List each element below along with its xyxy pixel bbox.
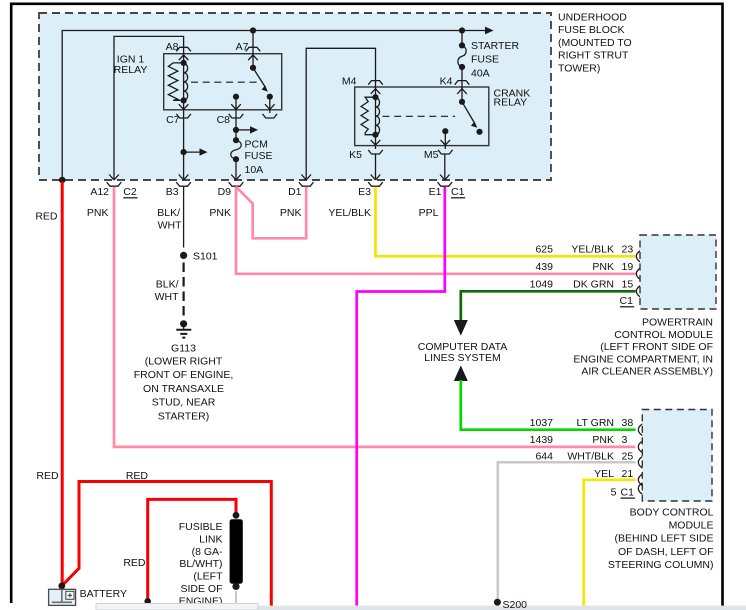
svg-text:WHT: WHT	[155, 291, 179, 303]
arrow up (lt grn)	[454, 365, 468, 381]
svg-text:RED: RED	[36, 470, 59, 482]
svg-text:RIGHT STRUT: RIGHT STRUT	[558, 50, 629, 62]
pin B3 exit arrow	[179, 175, 189, 180]
svg-text:OF DASH, LEFT OF: OF DASH, LEFT OF	[618, 546, 713, 558]
node: junction at bottom	[144, 598, 151, 605]
contact to M5	[442, 128, 448, 134]
svg-text:K4: K4	[440, 75, 453, 87]
svg-text:40A: 40A	[471, 67, 490, 79]
svg-text:YEL/BLK: YEL/BLK	[328, 207, 371, 219]
arrow (feed continues right)	[485, 27, 494, 35]
wire: M4 pin into relay coil	[375, 81, 377, 98]
svg-text:BL/WHT): BL/WHT)	[179, 558, 222, 570]
arrow down (dk grn)	[454, 320, 468, 336]
underhood fuse block (dashed box, blue fill)	[39, 13, 551, 180]
svg-text:25: 25	[622, 451, 634, 463]
svg-text:ON TRANSAXLE: ON TRANSAXLE	[143, 383, 224, 395]
relay coil (IGN 1): resistor zigzag	[168, 63, 183, 101]
wire: K4 pin into switch	[461, 81, 463, 102]
svg-text:3: 3	[622, 434, 628, 446]
svg-text:RELAY: RELAY	[114, 64, 148, 76]
ground G113	[180, 320, 187, 327]
contact (open end)	[476, 129, 482, 135]
PCM pin brackets	[636, 250, 642, 263]
svg-text:PNK: PNK	[209, 207, 231, 219]
svg-text:10A: 10A	[245, 164, 264, 176]
svg-text:POWERTRAIN: POWERTRAIN	[642, 317, 713, 329]
svg-text:AIR CLEANER ASSEMBLY): AIR CLEANER ASSEMBLY)	[581, 366, 713, 378]
node: coil top	[372, 94, 378, 100]
PCM wire row labels	[530, 244, 635, 307]
wire: coil bottom to K5	[375, 135, 377, 149]
svg-text:LT GRN: LT GRN	[576, 417, 614, 429]
svg-text:C2: C2	[123, 186, 137, 198]
svg-text:C1: C1	[620, 295, 634, 307]
svg-text:WHT/BLK: WHT/BLK	[567, 451, 614, 463]
bottom scrollbar strip	[104, 606, 746, 610]
svg-text:C1: C1	[621, 486, 635, 498]
fusible link (8 GA BL/WHT)	[233, 512, 240, 519]
switch blade (diagonal)	[253, 68, 266, 88]
wire: K5 to E3 exit	[375, 154, 377, 179]
label: COMPUTER DATA LINES SYSTEM	[418, 341, 507, 364]
arrow into box at M4	[371, 89, 381, 94]
node: C8 branch junction	[233, 127, 239, 133]
wire: RED fusible link feed	[148, 499, 236, 601]
switch blade (diagonal)	[462, 102, 475, 124]
node: C7 branch junction	[181, 149, 187, 155]
svg-text:LINES SYSTEM: LINES SYSTEM	[424, 352, 500, 364]
svg-text:PNK: PNK	[592, 261, 614, 273]
wire color labels	[35, 207, 438, 232]
svg-text:FRONT OF ENGINE,: FRONT OF ENGINE,	[134, 369, 234, 381]
wire: YEL/BLK E3 to PCM pin 23 (625)	[376, 187, 636, 256]
svg-text:FUSE BLOCK: FUSE BLOCK	[558, 24, 625, 36]
wire: PNK link D9 to D1	[236, 187, 306, 239]
svg-text:15: 15	[622, 279, 634, 291]
svg-text:RED: RED	[35, 211, 58, 223]
pin E3 exit arrow	[371, 175, 381, 180]
svg-text:STUD, NEAR: STUD, NEAR	[152, 397, 216, 409]
svg-text:(LEFT FRONT SIDE OF: (LEFT FRONT SIDE OF	[600, 341, 713, 353]
svg-text:S101: S101	[193, 251, 218, 263]
svg-text:PCM: PCM	[245, 138, 268, 150]
svg-text:BODY CONTROL: BODY CONTROL	[630, 507, 714, 519]
svg-text:UNDERHOOD: UNDERHOOD	[558, 12, 627, 24]
pin A12 exit arrow	[109, 175, 119, 180]
arrow out of box at C7	[179, 104, 189, 109]
pin D1 exit arrow	[301, 175, 311, 180]
node: switch pivot	[459, 99, 465, 105]
node: battery junction	[58, 583, 65, 590]
svg-text:M4: M4	[342, 75, 357, 87]
label: FUSIBLE LINK	[179, 521, 223, 607]
crank relay box	[355, 87, 489, 146]
svg-text:38: 38	[622, 417, 634, 429]
svg-text:TOWER): TOWER)	[558, 62, 600, 74]
pin E1 bracket	[438, 182, 453, 186]
svg-text:PNK: PNK	[87, 207, 109, 219]
svg-text:644: 644	[535, 451, 553, 463]
svg-text:625: 625	[535, 244, 553, 256]
svg-text:C8: C8	[217, 114, 231, 126]
mechanical link (dashed)	[383, 115, 456, 117]
svg-text:RED: RED	[123, 557, 146, 569]
splice S101	[180, 252, 187, 259]
svg-text:YEL/BLK: YEL/BLK	[571, 244, 614, 256]
svg-text:1439: 1439	[530, 434, 554, 446]
wire: A8 pin into relay coil	[183, 47, 185, 63]
svg-text:BLK/: BLK/	[157, 207, 180, 219]
pin B3 bracket	[176, 182, 191, 186]
pin D9 bracket	[229, 182, 244, 186]
svg-text:RED: RED	[126, 470, 149, 482]
pin (unlabeled)	[263, 114, 278, 118]
svg-text:(BEHIND LEFT SIDE: (BEHIND LEFT SIDE	[615, 533, 714, 545]
svg-text:23: 23	[622, 244, 634, 256]
node: coil bottom	[181, 97, 187, 103]
label: POWERTRAIN CONTROL MODULE	[573, 317, 713, 378]
mechanical link (dashed)	[191, 81, 260, 83]
node: switch pivot	[250, 65, 256, 71]
arrow into box at K4	[457, 89, 467, 94]
arrow into box at A8	[179, 55, 189, 60]
svg-text:21: 21	[622, 468, 634, 480]
svg-text:439: 439	[535, 261, 553, 273]
wire: A8 to A12 exit	[114, 36, 184, 178]
svg-text:FUSE: FUSE	[245, 150, 273, 162]
svg-text:M5: M5	[424, 149, 439, 161]
node: coil bottom	[372, 132, 378, 138]
label: STARTER FUSE 40A	[471, 40, 519, 79]
wire: BLK/WHT B3 to S101	[183, 187, 185, 248]
svg-text:K5: K5	[349, 149, 362, 161]
pin E3 bracket	[368, 182, 383, 186]
wire: RED battery feed (left)	[61, 182, 64, 586]
wire: PPL E1 down and across	[357, 187, 445, 606]
svg-text:SIDE OF: SIDE OF	[180, 583, 222, 595]
contact (unused throw)	[267, 94, 273, 100]
svg-text:E3: E3	[358, 186, 371, 198]
relay coil (IGN 1): arcs	[184, 63, 188, 101]
wire: M5 to E1 exit	[444, 154, 446, 179]
svg-text:E1: E1	[429, 186, 442, 198]
arrow out of box at K5	[371, 140, 381, 145]
svg-text:STEERING COLUMN): STEERING COLUMN)	[608, 559, 714, 571]
wire: PNK A12 to BCM pin 3 (1439)	[114, 187, 636, 447]
svg-text:FUSIBLE: FUSIBLE	[179, 521, 223, 533]
svg-text:ENGINE COMPARTMENT, IN: ENGINE COMPARTMENT, IN	[573, 353, 713, 365]
svg-text:(8 GA-: (8 GA-	[192, 546, 223, 558]
pcm fuse 10A	[233, 137, 239, 143]
svg-text:S200: S200	[503, 599, 528, 610]
wire: WHT/BLK BCM pin 25 (644) to S200	[498, 462, 636, 601]
svg-text:(LEFT: (LEFT	[193, 571, 223, 583]
svg-text:FUSE: FUSE	[471, 54, 499, 66]
wire: fuse to D9 exit	[235, 159, 237, 178]
svg-text:STARTER: STARTER	[471, 40, 519, 52]
body control module (dashed box)	[642, 410, 712, 502]
svg-text:C1: C1	[451, 186, 465, 198]
svg-text:A12: A12	[90, 186, 109, 198]
svg-text:LINK: LINK	[199, 533, 222, 545]
wire: PNK D9 to PCM pin 19 (439)	[236, 187, 636, 274]
wire: A7 pin into switch	[252, 31, 254, 68]
splice S200	[494, 599, 501, 606]
svg-text:WHT: WHT	[158, 220, 182, 232]
node: junction above A7	[250, 27, 256, 33]
wire: main battery feed bus across fuse block top	[62, 31, 486, 181]
wire: branch to other circuits	[184, 151, 200, 153]
wire: M4 to D1 exit	[306, 48, 375, 178]
wire: DK GRN PCM pin 15 (1049) to data lines	[461, 291, 636, 320]
svg-text:(MOUNTED TO: (MOUNTED TO	[558, 37, 632, 49]
node: coil top	[181, 60, 187, 66]
node: red feed exit at fuse block bottom	[59, 177, 66, 184]
svg-text:(LOWER RIGHT: (LOWER RIGHT	[145, 356, 223, 368]
svg-text:G113: G113	[171, 343, 196, 355]
wire: C7 down to B3 exit	[183, 113, 185, 179]
label: G113 location	[134, 343, 234, 423]
wire: coil bottom to C7	[183, 100, 185, 113]
pin E1 exit arrow	[440, 175, 450, 180]
svg-text:D9: D9	[218, 186, 232, 198]
node: junction above starter fuse	[459, 27, 465, 33]
label: IGN 1 RELAY	[114, 53, 148, 76]
svg-text:PNK: PNK	[592, 434, 614, 446]
wire: branch to other circuits	[236, 129, 251, 131]
svg-text:DK GRN: DK GRN	[573, 279, 614, 291]
label: BLK/WHT	[155, 279, 179, 304]
label: PCM FUSE 10A	[245, 138, 273, 176]
relay coil (CRANK): resistor zigzag	[361, 97, 375, 135]
powertrain control module (dashed box)	[640, 235, 716, 309]
svg-text:D1: D1	[288, 186, 302, 198]
pin D1 bracket	[299, 182, 314, 186]
wire: LT GRN BCM pin 38 (1037) to data lines	[461, 380, 636, 430]
svg-text:CONTROL MODULE: CONTROL MODULE	[614, 329, 713, 341]
pin D9 exit arrow	[231, 175, 241, 180]
BCM wire row labels	[530, 417, 635, 499]
label: UNDERHOOD FUSE BLOCK (MOUNTED TO RIGHT STRUT TOWER)	[558, 12, 632, 75]
svg-text:YEL: YEL	[594, 468, 614, 480]
svg-text:PPL: PPL	[419, 207, 439, 219]
svg-text:STARTER): STARTER)	[158, 410, 210, 422]
battery	[49, 589, 76, 605]
wire: C8 down to PCM fuse	[235, 113, 237, 140]
svg-text:B3: B3	[166, 186, 179, 198]
svg-text:PNK: PNK	[280, 207, 302, 219]
svg-text:MODULE: MODULE	[669, 520, 714, 532]
svg-text:19: 19	[622, 261, 634, 273]
arrow into box at A7	[248, 55, 258, 60]
svg-text:A7: A7	[236, 41, 249, 53]
label: BODY CONTROL MODULE	[608, 507, 714, 571]
ign 1 relay box	[164, 54, 282, 110]
svg-text:5: 5	[611, 486, 617, 498]
svg-text:1037: 1037	[530, 417, 554, 429]
label: CRANK RELAY	[494, 87, 531, 108]
BCM pin brackets	[638, 423, 644, 436]
starter fuse 40A	[461, 31, 463, 46]
svg-text:BLK/: BLK/	[156, 279, 179, 291]
svg-text:1049: 1049	[530, 279, 554, 291]
exit pin labels	[90, 186, 465, 198]
wire: YEL BCM pin 21 (5) down	[584, 480, 636, 606]
svg-text:BATTERY: BATTERY	[80, 588, 127, 600]
wire: RED battery to junction run	[62, 482, 271, 607]
relay coil (CRANK): arcs	[376, 97, 380, 135]
svg-text:RELAY: RELAY	[494, 97, 528, 109]
wire: BLK/WHT S101 to G113 (dashed)	[183, 263, 185, 320]
contact to C8	[233, 94, 239, 100]
pin A12 bracket	[107, 182, 122, 186]
